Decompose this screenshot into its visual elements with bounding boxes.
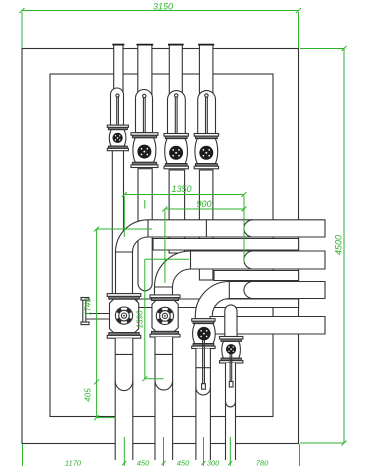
- pipe t2 lower with dome end cap: [138, 169, 152, 291]
- B3 handwheel (dark): [198, 327, 210, 339]
- weld joint in run A: [205, 220, 207, 237]
- dome (turn-away) on run E: [244, 282, 253, 299]
- B2 body: [152, 301, 178, 332]
- B4 body: [222, 341, 241, 358]
- dimension 4500 (right): [300, 46, 347, 446]
- V3 handwheel (dark): [170, 146, 183, 159]
- B2 handwheel: [156, 307, 173, 324]
- V1 lower flange: [108, 146, 127, 148]
- V4 upper flange: [194, 134, 218, 137]
- V3 stem: [174, 97, 176, 149]
- V4 handwheel (dark): [200, 146, 213, 159]
- V1 handwheel (dark): [113, 133, 122, 142]
- B1 upper flange: [107, 294, 141, 297]
- B1 handwheel: [115, 307, 132, 324]
- svg-text:3150: 3150: [153, 2, 173, 12]
- horizontal run E with elbow and riser to valve B3: [195, 282, 325, 319]
- horizontal run F (short, to frame edge): [137, 299, 299, 308]
- B3 bonnet and outlet pipe to bottom: [196, 349, 211, 461]
- B4 stem: [229, 354, 231, 382]
- svg-text:405: 405: [84, 388, 93, 402]
- horizontal run G (long, to drawing edge): [210, 317, 325, 335]
- riser to valve B4 with dome top: [225, 305, 237, 337]
- outer frame: [22, 49, 299, 444]
- horizontal run D (short, to frame edge): [214, 271, 299, 281]
- valve V4 (top, stem up): [194, 91, 218, 169]
- dome (turn-away) on run A: [244, 220, 253, 237]
- dome (turn-away) on run C: [244, 251, 253, 269]
- svg-text:450: 450: [137, 459, 150, 467]
- V2 stem: [142, 98, 144, 148]
- horizontal run C with elbow and riser to valve B2: [155, 251, 326, 295]
- top stub pipe t3 with cap: [168, 45, 184, 95]
- B3 lower flange: [193, 344, 214, 347]
- V1 bonnet tube with arched top: [111, 88, 124, 125]
- valve V1 (top, stem up): [107, 88, 128, 151]
- V1 upper flange: [107, 125, 128, 127]
- V4 bonnet tube with arched top: [198, 91, 216, 134]
- V2 handwheel (dark): [138, 145, 151, 158]
- B1 bonnet and outlet pipe to bottom: [115, 338, 133, 460]
- weld joint run A: [147, 220, 149, 237]
- svg-text:1390: 1390: [136, 310, 145, 328]
- V1 stem: [116, 97, 118, 136]
- B1 side stub pipe: [86, 313, 109, 315]
- B4 upper flange: [220, 337, 243, 340]
- weld joint riser B2: [155, 286, 173, 288]
- valve B1 (flanged valve with handwheel): [81, 294, 141, 460]
- valve B2 (flanged valve with handwheel): [150, 295, 180, 460]
- valve V2 (top, stem up): [131, 90, 158, 168]
- dimension 1740 (left vertical): [84, 227, 153, 418]
- svg-text:450: 450: [177, 459, 190, 467]
- horizontal run A with elbow and riser to valve B1: [116, 220, 326, 294]
- pipe t1 lower (below valve V1 down to valve B1): [112, 151, 123, 295]
- top stub pipe t4 with cap: [198, 45, 214, 95]
- svg-text:1350: 1350: [171, 184, 191, 194]
- weld joint run C: [190, 251, 192, 269]
- B4 handwheel (dark): [227, 345, 236, 354]
- pipe t4 lower: [199, 170, 213, 280]
- dimension 405 (left vertical): [84, 388, 116, 420]
- svg-text:1170: 1170: [65, 459, 82, 467]
- B1 side stub flange: [81, 298, 89, 301]
- dimension 1350: [122, 184, 247, 262]
- V4 body: [195, 139, 218, 164]
- B2 lower flange: [152, 331, 179, 334]
- V2 lower flange: [132, 162, 156, 165]
- valve B3 (globe valve, stem down): [192, 319, 216, 460]
- B4 bonnet and outlet pipe to bottom: [226, 363, 236, 460]
- svg-text:900: 900: [196, 199, 211, 209]
- V4 lower flange: [196, 164, 218, 167]
- svg-text:300: 300: [207, 459, 220, 467]
- B1 body: [110, 299, 139, 332]
- B3 stem: [202, 340, 204, 384]
- B3 upper flange: [192, 319, 215, 322]
- weld joint riser B1: [116, 251, 133, 253]
- V2 body: [133, 138, 156, 163]
- dimension 900: [162, 199, 246, 283]
- valve V3 (top, stem up): [164, 91, 188, 169]
- weld joint run E: [228, 282, 230, 299]
- B2 bonnet and outlet pipe to bottom: [155, 337, 173, 460]
- horizontal run B (short, to frame edge): [153, 239, 299, 251]
- svg-text:4500: 4500: [334, 235, 344, 255]
- B2 upper flange: [150, 295, 180, 298]
- B1 lower flange: [109, 333, 139, 336]
- V1 body: [109, 130, 126, 146]
- bottom dimension extension lines: [23, 437, 300, 466]
- valve B4 (globe valve, stem down): [220, 337, 243, 461]
- V4 stem: [205, 97, 207, 149]
- V3 upper flange: [164, 134, 188, 137]
- V3 lower flange: [165, 164, 187, 167]
- B4 lower flange: [221, 358, 241, 361]
- V3 bonnet tube with arched top: [168, 91, 186, 134]
- V2 upper flange: [131, 133, 158, 136]
- svg-text:780: 780: [256, 459, 269, 467]
- svg-text:1740: 1740: [84, 298, 93, 316]
- V2 bonnet tube with arched top: [136, 90, 153, 133]
- top stub pipe t2 with cap: [137, 45, 154, 95]
- top stub pipe t1 with cap: [112, 45, 124, 95]
- pipe t3 lower: [169, 170, 185, 253]
- dimension 3150 (top): [20, 2, 302, 48]
- V3 body: [165, 139, 188, 164]
- dimension 1390 (vertical near B2): [136, 200, 190, 381]
- inner frame: [50, 74, 273, 417]
- B3 body: [193, 324, 216, 344]
